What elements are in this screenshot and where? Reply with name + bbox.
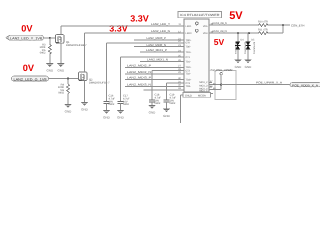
svg-text:CT1: CT1 [186,56,191,59]
svg-text:LAN2_MDI0_N: LAN2_MDI0_N [147,43,167,47]
svg-text:VD5: VD5 [203,25,208,28]
svg-text:LAN2_LED_Y: LAN2_LED_Y [151,22,170,26]
svg-text:LED1: LED1 [186,25,193,28]
svg-text:LAN2_LED_G: LAN2_LED_G [151,29,170,33]
svg-text:IC4 RTL8211F/TOWER: IC4 RTL8211F/TOWER [180,13,220,17]
svg-text:TD0-: TD0- [186,45,192,48]
svg-text:3.3V: 3.3V [109,24,128,34]
svg-text:LAN2_MDI0_P: LAN2_MDI0_P [147,36,167,40]
svg-text:LAN2_MDI2_P: LAN2_MDI2_P [127,63,151,67]
svg-text:TD3-: TD3- [186,85,192,88]
svg-text:5V: 5V [229,10,243,22]
svg-text:LAN2_LED_Y_1V8: LAN2_LED_Y_1V8 [10,37,42,41]
svg-text:0402: 0402 [170,102,176,105]
svg-text:0V: 0V [21,24,33,34]
svg-text:3.3V: 3.3V [130,14,149,24]
svg-text:12V/AVD_USB_5V: 12V/AVD_USB_5V [212,22,227,25]
svg-text:R10 47R: R10 47R [258,20,268,23]
svg-text:BZT52C5V1: BZT52C5V1 [234,42,237,55]
svg-text:LAN2_MDI1_N: LAN2_MDI1_N [147,58,168,62]
svg-text:DMN2005UFB4-7: DMN2005UFB4-7 [66,44,87,47]
svg-text:POE_VDD5_X_A: POE_VDD5_X_A [292,83,318,87]
svg-text:0402: 0402 [123,103,129,106]
svg-text:LED0: LED0 [186,32,193,35]
svg-text:LAN2_MDI3_N: LAN2_MDI3_N [127,82,151,86]
svg-text:BZT52C5V1: BZT52C5V1 [243,42,246,55]
svg-text:5V: 5V [214,37,225,47]
svg-text:TD2-: TD2- [186,73,192,76]
svg-text:LAN2_MDI1_P: LAN2_MDI1_P [146,48,167,52]
svg-text:14C/AVD_USB_CD: 14C/AVD_USB_CD [212,30,227,33]
svg-text:0402: 0402 [58,92,64,95]
svg-text:+5V_PSU_UPWR: +5V_PSU_UPWR [210,68,233,72]
svg-text:0402: 0402 [155,102,161,105]
svg-text:0402: 0402 [109,103,115,106]
svg-text:LAN2_LED_G_1V8: LAN2_LED_G_1V8 [14,77,47,81]
svg-text:LAN2_MDI2_N: LAN2_MDI2_N [127,70,151,74]
svg-text:0V: 0V [23,63,35,73]
svg-text:POE_UPWR_X_A: POE_UPWR_X_A [256,81,282,85]
svg-text:CT0: CT0 [186,42,191,45]
svg-text:CON_ETH: CON_ETH [291,23,304,27]
svg-text:MCGA: MCGA [198,94,206,97]
svg-text:TD1+: TD1+ [186,51,193,54]
svg-text:R11 47R: R11 47R [258,28,268,31]
svg-text:0402: 0402 [40,52,46,55]
svg-text:LAN2_MDI3_P: LAN2_MDI3_P [127,76,151,80]
svg-text:BZT52C5V1: BZT52C5V1 [253,42,256,55]
svg-text:VD3: VD3 [203,32,208,35]
svg-text:TD1-: TD1- [186,60,192,63]
svg-text:SHLD: SHLD [185,94,192,97]
